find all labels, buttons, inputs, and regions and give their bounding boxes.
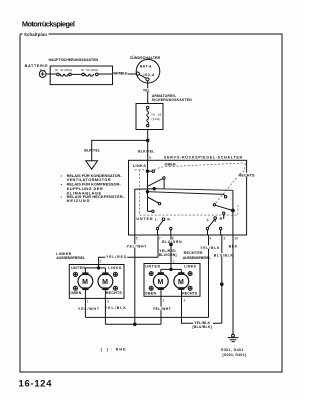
svg-text:1: 1 xyxy=(163,299,165,303)
svg-text:SERVO-RÜCKSPIEGEL-SCHALTER: SERVO-RÜCKSPIEGEL-SCHALTER xyxy=(164,155,242,160)
wire fuse box down to junction xyxy=(147,130,149,161)
dash fuse box ARMATUREN-SICHERUNGSKASTEN xyxy=(136,94,192,130)
svg-text:SICHERUNGSKASTEN: SICHERUNGSKASTEN xyxy=(152,98,193,102)
wire pin7 YEL/RED down xyxy=(157,235,159,257)
left mirror pin 1 wire xyxy=(84,290,86,318)
svg-text:HAUPTSICHERUNGSKASTEN: HAUPTSICHERUNGSKASTEN xyxy=(49,58,99,62)
svg-text:IG2-A: IG2-A xyxy=(144,73,156,77)
svg-text:YEL/BLK: YEL/BLK xyxy=(200,246,220,250)
frame border Schaltplan xyxy=(20,32,282,372)
dashed mechanical links xyxy=(135,163,246,215)
wire pin8 BLU/GRN down to right mirror xyxy=(162,235,182,269)
svg-text:RELAIS FÜR KONDENSATOR-: RELAIS FÜR KONDENSATOR- xyxy=(67,173,123,178)
switch label RECHTS xyxy=(238,173,255,178)
relay list xyxy=(61,173,125,203)
svg-text:G301, G401: G301, G401 xyxy=(221,348,244,352)
svg-text:L: L xyxy=(207,218,209,222)
label YEL/RED [BLU/GRN] xyxy=(158,249,177,257)
svg-text:RECHTS: RECHTS xyxy=(239,173,256,177)
svg-text:1: 1 xyxy=(87,300,89,304)
wire battery to fuse box xyxy=(46,73,57,75)
switch internal pin5 riser xyxy=(135,189,154,235)
motor M left mirror vertical xyxy=(78,272,93,290)
svg-text:BLK/YEL: BLK/YEL xyxy=(84,148,100,152)
svg-text:Motorrückspiegel: Motorrückspiegel xyxy=(22,19,75,28)
svg-text:10: 10 xyxy=(234,237,238,241)
wire pin5 YEL/WHT down xyxy=(126,235,147,324)
svg-text:M: M xyxy=(178,279,184,286)
svg-text:R: R xyxy=(220,217,223,221)
svg-text:RECHTER: RECHTER xyxy=(184,251,203,255)
svg-text:•: • xyxy=(61,174,63,178)
svg-text:KUPPLUNG DER: KUPPLUNG DER xyxy=(67,187,103,191)
svg-text:YEL/WHT: YEL/WHT xyxy=(127,245,147,249)
svg-text:BLK: BLK xyxy=(229,244,238,248)
svg-text:UNTEN: UNTEN xyxy=(136,217,152,221)
left mirror box xyxy=(69,265,124,299)
svg-text:•: • xyxy=(61,183,63,187)
switch internal right section xyxy=(213,190,234,235)
svg-text:Schaltplan: Schaltplan xyxy=(24,32,47,37)
right mirror labels xyxy=(145,265,198,296)
svg-text:YEL/WHT: YEL/WHT xyxy=(78,307,99,311)
right mirror pin 3 wire xyxy=(182,290,222,324)
svg-text:Nr. 32 (50A): Nr. 32 (50A) xyxy=(81,68,98,72)
ignition switch ZÜNDSCHALTER xyxy=(130,55,161,83)
fuse Nr.32 50A xyxy=(81,68,98,76)
svg-text:YEL: YEL xyxy=(143,88,150,92)
switch internal left section xyxy=(146,160,165,212)
left mirror labels xyxy=(70,266,122,295)
svg-text:AUSSENSPIEGEL: AUSSENSPIEGEL xyxy=(183,256,212,260)
ground G301 G401 xyxy=(221,334,246,357)
svg-text:7: 7 xyxy=(159,237,161,241)
svg-text:OBEN: OBEN xyxy=(70,291,81,295)
svg-text:OBEN: OBEN xyxy=(165,162,176,166)
battery xyxy=(25,64,49,77)
connector symbols left mirror xyxy=(73,272,117,290)
svg-text:4: 4 xyxy=(209,237,211,241)
label RECHTER AUSSENSPIEGEL xyxy=(183,251,212,260)
motor M right mirror horizontal xyxy=(174,272,189,290)
svg-text:9: 9 xyxy=(149,156,151,160)
connector symbols right mirror xyxy=(149,272,192,291)
svg-text:(10A): (10A) xyxy=(152,117,161,121)
left mirror bus xyxy=(85,265,105,273)
svg-text:5: 5 xyxy=(136,237,138,241)
svg-text:[BLU/BLK]: [BLU/BLK] xyxy=(193,325,212,329)
node dot bus line 2 xyxy=(134,323,137,326)
svg-text:2: 2 xyxy=(100,260,102,264)
svg-text:UNTEN: UNTEN xyxy=(145,265,160,269)
switch lower left contacts L R xyxy=(155,217,172,235)
svg-text:R: R xyxy=(167,217,170,221)
motor M right mirror vertical xyxy=(153,272,168,290)
svg-text:WHT/BLK: WHT/BLK xyxy=(113,71,128,75)
node dot left mirror bus xyxy=(97,267,99,269)
wire YEL ignition to dash fuse box xyxy=(143,81,151,104)
svg-text:YEL/WHT: YEL/WHT xyxy=(153,307,171,311)
svg-text:HEIZUNG: HEIZUNG xyxy=(67,199,90,203)
svg-text:LINKS: LINKS xyxy=(133,164,147,168)
svg-text:OBEN: OBEN xyxy=(145,292,157,296)
svg-text:3: 3 xyxy=(107,300,109,304)
svg-text:L: L xyxy=(155,217,157,221)
wire BLK/YEL branch to relays xyxy=(92,140,148,160)
svg-text:YEL/BLK: YEL/BLK xyxy=(105,306,127,310)
label LINKER AUSSENSPIEGEL xyxy=(56,252,86,260)
svg-text:BAT-A: BAT-A xyxy=(140,65,152,69)
svg-text:LINKS: LINKS xyxy=(108,266,122,270)
node dot on pin3 wire xyxy=(221,283,224,286)
svg-text:YEL/RED: YEL/RED xyxy=(106,255,127,259)
motor M left mirror horizontal xyxy=(98,272,113,290)
svg-text:BLK/YEL: BLK/YEL xyxy=(138,149,154,153)
wire YEL/RED horizontal to left mirror xyxy=(99,254,158,265)
fuse Nr.31 80A xyxy=(55,68,72,76)
right mirror pin 1 wire YEL/WHT xyxy=(152,290,171,325)
right mirror box xyxy=(144,264,200,297)
svg-text:RECHTS: RECHTS xyxy=(182,292,198,296)
bottom bus line 2 xyxy=(105,323,161,325)
wire pin3 BLU/BLK down xyxy=(213,235,233,323)
right mirror bus xyxy=(161,269,182,273)
node dot right mirror bus xyxy=(170,268,172,270)
svg-text:16-124: 16-124 xyxy=(19,378,53,389)
switch internal bus wires xyxy=(148,189,233,195)
svg-text:LINKS: LINKS xyxy=(184,265,197,269)
svg-text:3: 3 xyxy=(223,237,225,241)
wire between fuses xyxy=(71,73,82,75)
pin numbers bottom of switch xyxy=(136,237,238,241)
svg-text:Nr. 31 (80A): Nr. 31 (80A) xyxy=(55,68,72,72)
left mirror pin 3 wire xyxy=(104,290,106,325)
svg-text:[ ] : RHD: [ ] : RHD xyxy=(101,347,126,351)
wire WHT/BLK fuse box to ignition xyxy=(98,71,136,75)
mirror switch box SERVO-RÜCKSPIEGEL-SCHALTER xyxy=(129,155,247,235)
svg-text:RELAIS FÜR KOMPRESSOR-: RELAIS FÜR KOMPRESSOR- xyxy=(67,182,122,187)
svg-text:M: M xyxy=(102,279,108,286)
label YEL/BLK [BLU/BLK] xyxy=(193,321,214,329)
switch lower right contacts L R xyxy=(206,214,223,235)
node junction dot xyxy=(146,139,149,142)
svg-text:AUSSENSPIEGEL: AUSSENSPIEGEL xyxy=(56,256,86,260)
arrow to relays xyxy=(86,161,98,169)
svg-text:M: M xyxy=(158,279,164,286)
svg-text:BATTERIE: BATTERIE xyxy=(25,64,49,68)
svg-text:RECHTS: RECHTS xyxy=(106,291,123,295)
svg-text:•: • xyxy=(61,195,63,199)
wire pin10 BLK down to ground xyxy=(229,235,238,334)
bottom bus line 1 xyxy=(85,316,208,318)
svg-text:M: M xyxy=(82,279,88,286)
node dot BLU/GRN xyxy=(170,243,173,246)
svg-text:3: 3 xyxy=(184,299,186,303)
svg-text:[G201, G401]: [G201, G401] xyxy=(223,353,246,357)
main fuse box HAUPTSICHERUNGSKASTEN xyxy=(49,58,113,85)
wire pin4 YEL/BLK down xyxy=(200,235,220,317)
svg-text:UNTEN: UNTEN xyxy=(71,266,85,270)
svg-text:BLU/BLK: BLU/BLK xyxy=(214,254,234,258)
fuse Nr.18 10A xyxy=(147,106,162,126)
svg-text:[BLU/GRN]: [BLU/GRN] xyxy=(158,253,177,257)
